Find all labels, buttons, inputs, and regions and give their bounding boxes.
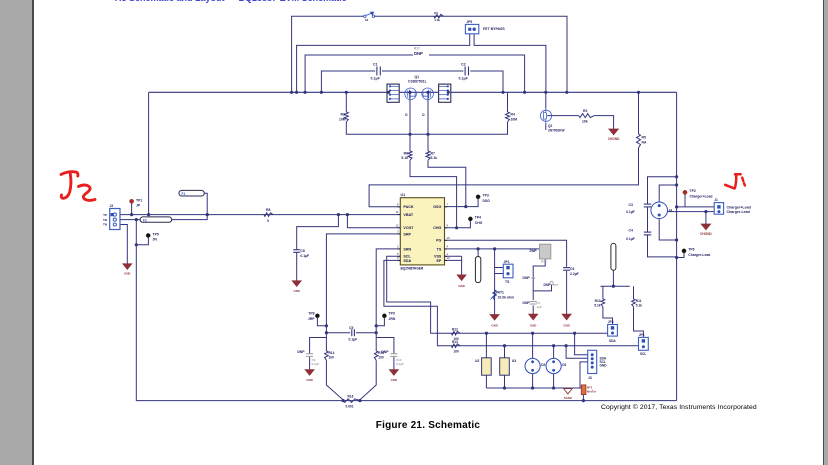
capacitor C2 xyxy=(464,67,466,76)
svg-text:VBAT: VBAT xyxy=(403,213,414,217)
wire C8 branch xyxy=(297,215,339,281)
svg-text:C4: C4 xyxy=(629,228,633,232)
svg-text:DNP: DNP xyxy=(414,51,423,56)
svg-text:Q2: Q2 xyxy=(548,124,552,128)
wire top loop 4 (C1/C2 net) xyxy=(321,71,503,92)
wire SRN sense xyxy=(376,249,400,351)
shunt resistor R16 xyxy=(343,399,360,403)
svg-text:0.1µF: 0.1µF xyxy=(371,77,381,81)
svg-text:DNP: DNP xyxy=(530,249,538,253)
wire U3 drop xyxy=(504,346,506,388)
svg-text:5.1k: 5.1k xyxy=(431,156,438,160)
red handwriting J1 annotation xyxy=(725,174,745,188)
IC U1 charger xyxy=(400,198,444,265)
ground GND at RT1 xyxy=(490,315,499,321)
ground SGND xyxy=(564,389,573,394)
wire right main vertical battery+ xyxy=(676,92,678,400)
svg-text:R18: R18 xyxy=(541,260,547,264)
junction dots right battery xyxy=(675,175,678,178)
resistor R13 xyxy=(451,344,460,348)
wire DNP C10 branch xyxy=(376,338,394,370)
wire DNP TP7 branch xyxy=(533,285,551,291)
wire RT1 chain vertical xyxy=(494,249,496,315)
wire TP9 stub xyxy=(376,318,384,326)
connector JP3 xyxy=(608,325,618,337)
LED D3 xyxy=(546,358,561,373)
svg-text:GND: GND xyxy=(124,272,130,276)
svg-text:11: 11 xyxy=(396,210,399,214)
svg-text:J4: J4 xyxy=(669,209,673,213)
svg-text:10M: 10M xyxy=(339,117,346,121)
DNP capacitor C10 xyxy=(390,354,397,357)
wire top loop 2 (JP5 net) xyxy=(297,34,546,93)
fuse F3 vertical pill xyxy=(611,243,616,270)
switch S1 xyxy=(364,15,366,17)
DNP label on net 3 xyxy=(413,50,429,56)
svg-text:GND: GND xyxy=(563,323,569,327)
wire SDA route xyxy=(387,256,609,333)
svg-text:3: 3 xyxy=(397,230,399,234)
svg-text:TP: TP xyxy=(103,213,107,217)
svg-text:R9: R9 xyxy=(532,276,536,280)
dual FET Q1 header left xyxy=(387,84,399,102)
ground GND at C6 xyxy=(562,314,571,320)
svg-text:GND: GND xyxy=(293,289,299,293)
DNP capacitor C9 xyxy=(306,354,313,357)
svg-text:10.0k ohm: 10.0k ohm xyxy=(498,296,515,300)
wire TP6 stub xyxy=(677,253,684,258)
svg-text:D3: D3 xyxy=(562,363,566,367)
svg-text:C8: C8 xyxy=(300,249,304,253)
svg-text:C5: C5 xyxy=(349,326,353,330)
svg-text:D2: D2 xyxy=(541,363,545,367)
junction dots gate line xyxy=(408,133,411,136)
svg-text:TP1: TP1 xyxy=(136,199,142,203)
svg-text:10M: 10M xyxy=(511,117,518,121)
resistor R1 xyxy=(434,14,444,18)
testpoint TP3 xyxy=(476,195,480,199)
svg-text:Charger+Lead: Charger+Lead xyxy=(690,194,713,198)
wire jack top stub xyxy=(659,185,676,202)
svg-text:D: D xyxy=(405,113,408,117)
svg-text:100: 100 xyxy=(454,350,460,354)
svg-text:R13: R13 xyxy=(452,340,458,344)
capacitor C6 xyxy=(563,267,570,269)
wire main top bus VIN xyxy=(149,91,677,93)
red handwriting J2 annotation xyxy=(61,172,95,201)
svg-text:GND: GND xyxy=(306,378,312,382)
capacitor C4 xyxy=(644,231,652,233)
svg-text:R7: R7 xyxy=(431,151,435,155)
connector J1 xyxy=(714,203,723,215)
svg-text:PACK: PACK xyxy=(403,205,414,209)
wire top loop 3 (DNP net) xyxy=(305,55,524,92)
capacitor C1 xyxy=(376,67,378,76)
junction dots sense xyxy=(325,324,328,327)
svg-text:DNP: DNP xyxy=(297,350,305,354)
svg-text:F2: F2 xyxy=(143,218,147,222)
svg-text:100: 100 xyxy=(378,356,384,360)
svg-text:C7: C7 xyxy=(537,301,541,305)
svg-text:8: 8 xyxy=(397,202,399,206)
dual FET Q1 header right xyxy=(439,84,451,102)
svg-text:0.1µF: 0.1µF xyxy=(626,210,635,214)
svg-text:CHG: CHG xyxy=(433,226,441,230)
fuse F4 vertical pill xyxy=(475,257,480,283)
wire SRP sense xyxy=(326,234,400,351)
svg-text:C1: C1 xyxy=(373,62,378,66)
svg-text:SCL: SCL xyxy=(640,352,646,356)
svg-text:JP4: JP4 xyxy=(639,333,645,337)
wire SCL route xyxy=(384,260,639,345)
wire TP2 stub xyxy=(684,195,686,207)
svg-text:RT1: RT1 xyxy=(498,291,505,295)
resistor R4 xyxy=(506,112,510,122)
wire CHGND drop at J1 xyxy=(705,212,707,224)
svg-text:PG: PG xyxy=(436,239,441,243)
resistor R12 xyxy=(451,331,460,335)
wire FET gate drops to R6 R7 xyxy=(410,92,457,228)
testpoint TP6 xyxy=(682,249,686,253)
svg-text:R17: R17 xyxy=(414,47,420,51)
svg-text:VCNT: VCNT xyxy=(403,226,414,230)
wire D2 drop xyxy=(532,333,534,388)
wire left long vertical and bottom rail xyxy=(136,220,676,401)
wire fuse F1 drop xyxy=(204,193,207,214)
ground GND at C8 xyxy=(292,281,301,287)
svg-text:1µF: 1µF xyxy=(537,305,542,309)
svg-text:5.1k: 5.1k xyxy=(401,156,408,160)
svg-text:TP2: TP2 xyxy=(690,189,696,193)
wire C5 bridge xyxy=(326,332,376,334)
svg-text:DNP: DNP xyxy=(523,301,531,305)
transistor Q1a mosfet xyxy=(405,88,417,100)
connector J3 xyxy=(588,350,597,373)
wire TP1 stub xyxy=(131,203,133,214)
resistor R7 xyxy=(426,151,430,160)
svg-text:GND: GND xyxy=(530,323,536,327)
svg-text:TS: TS xyxy=(437,247,442,251)
svg-text:R1: R1 xyxy=(434,11,438,15)
resistor R14 xyxy=(325,351,329,360)
DNP component grey box xyxy=(540,244,551,259)
svg-text:0.1µF: 0.1µF xyxy=(459,77,469,81)
svg-text:JP1: JP1 xyxy=(504,260,510,264)
svg-text:TP9: TP9 xyxy=(389,312,395,316)
ground CHGND at Q2 xyxy=(609,129,619,135)
svg-text:C6: C6 xyxy=(570,267,574,271)
wire J1 pin1 line xyxy=(677,206,715,208)
svg-text:R3: R3 xyxy=(341,113,345,117)
fuse F1 xyxy=(179,190,204,196)
testpoint TP5 xyxy=(146,233,150,237)
svg-text:R6: R6 xyxy=(404,151,408,155)
wire DSG net xyxy=(445,199,479,207)
wire pill F3 bottom to R10 R11 loop xyxy=(600,270,629,286)
svg-text:100: 100 xyxy=(329,356,335,360)
resistor R2 xyxy=(579,114,595,118)
wire main input line J2 to VBAT xyxy=(120,214,400,216)
svg-text:JRN: JRN xyxy=(389,317,396,321)
svg-text:TP4: TP4 xyxy=(475,216,481,220)
svg-text:U3: U3 xyxy=(512,359,516,363)
capacitor C8 xyxy=(293,249,300,251)
wire VCNT jog xyxy=(347,215,400,228)
svg-text:Charger-Lead: Charger-Lead xyxy=(727,210,750,214)
svg-text:2.2µF: 2.2µF xyxy=(570,272,579,276)
svg-text:EP: EP xyxy=(436,259,441,263)
transistor Q2 xyxy=(540,110,551,121)
svg-text:CHG: CHG xyxy=(475,221,483,225)
junction dots bus xyxy=(290,91,293,94)
svg-text:13: 13 xyxy=(446,256,450,260)
wire R10 leg to JP3 xyxy=(603,286,613,324)
svg-text:DNP: DNP xyxy=(381,350,389,354)
svg-text:TP5: TP5 xyxy=(153,233,159,237)
svg-text:GND: GND xyxy=(458,284,464,288)
testpoint TP2 xyxy=(683,190,687,194)
wire NT1 stubs xyxy=(582,395,584,401)
ground GND at C7 xyxy=(529,314,538,320)
svg-text:NA: NA xyxy=(642,140,647,144)
LED driver U3 xyxy=(500,358,510,375)
svg-text:Charger+Lead: Charger+Lead xyxy=(727,205,751,209)
wire shunt approach V left xyxy=(326,360,343,400)
svg-text:4: 4 xyxy=(446,245,448,249)
wire shunt approach V right xyxy=(360,360,376,400)
resistor R10 xyxy=(601,299,605,307)
svg-text:0.1µF: 0.1µF xyxy=(396,362,404,366)
LED D2 xyxy=(525,358,540,373)
transistor Q1b mosfet xyxy=(422,88,434,100)
wire J2 pin3 to gnd xyxy=(120,225,127,264)
wire gate line between R3 and R4 xyxy=(346,122,507,134)
svg-text:GND: GND xyxy=(600,364,608,368)
svg-text:1.0k: 1.0k xyxy=(434,18,440,22)
svg-text:J3: J3 xyxy=(588,376,592,380)
svg-text:TB: TB xyxy=(103,218,108,222)
svg-text:CSD87501L: CSD87501L xyxy=(408,79,427,83)
capacitor C5 xyxy=(351,329,353,336)
svg-text:SDA: SDA xyxy=(609,339,616,343)
svg-text:DNP: DNP xyxy=(523,276,531,280)
svg-text:7: 7 xyxy=(446,202,448,206)
svg-text:0.1µF: 0.1µF xyxy=(300,254,309,258)
svg-text:NetTie: NetTie xyxy=(587,390,596,394)
svg-text:R8: R8 xyxy=(266,208,270,212)
connector JP1 xyxy=(503,264,513,278)
DNP capacitor C7 xyxy=(530,302,537,305)
svg-text:9: 9 xyxy=(446,223,448,227)
svg-text:JP3: JP3 xyxy=(608,320,614,324)
svg-text:J2: J2 xyxy=(110,204,114,208)
net tie NT1 xyxy=(581,385,586,395)
junction dots sda scl xyxy=(485,332,488,335)
wire DNP grey box chain xyxy=(533,259,545,314)
testpoint TP8 xyxy=(315,314,319,318)
svg-text:JRP: JRP xyxy=(308,317,315,321)
svg-text:10: 10 xyxy=(446,236,450,240)
svg-text:R12: R12 xyxy=(452,327,458,331)
svg-text:C2: C2 xyxy=(461,62,466,66)
wire VSS EP to gnd xyxy=(445,256,462,275)
ground GND at J2 xyxy=(123,264,132,270)
wire PACK net with R5 riser xyxy=(369,92,638,206)
svg-text:12: 12 xyxy=(395,223,399,227)
svg-text:CHGND: CHGND xyxy=(700,232,712,236)
connector JP4 xyxy=(639,337,649,350)
thermistor RT1 xyxy=(493,290,497,300)
wire top loop 1 with S1/R1 xyxy=(292,16,567,92)
svg-text:0.1µF: 0.1µF xyxy=(312,362,320,366)
wire TS net xyxy=(445,248,540,250)
svg-text:SRN: SRN xyxy=(403,247,411,251)
svg-text:C3: C3 xyxy=(629,203,633,207)
junction dot TP5 node xyxy=(135,243,138,246)
svg-text:SGND: SGND xyxy=(564,396,572,400)
svg-text:JN: JN xyxy=(153,238,158,242)
svg-text:FET BYPASS: FET BYPASS xyxy=(483,27,505,31)
junction dots rail xyxy=(342,399,345,402)
svg-text:JP: JP xyxy=(136,204,141,208)
resistor R11 xyxy=(632,299,636,307)
svg-text:0.1µF: 0.1µF xyxy=(626,237,635,241)
svg-text:R5: R5 xyxy=(642,136,646,140)
svg-text:0.001: 0.001 xyxy=(346,405,354,409)
svg-text:GND: GND xyxy=(391,378,397,382)
LED driver U2 xyxy=(482,358,492,375)
connector JP5 xyxy=(465,24,478,33)
wire left vertical from bus to input line xyxy=(148,92,150,214)
ground GND at U1 VSS xyxy=(457,275,466,281)
resistor R3 xyxy=(344,112,348,122)
wire pill F4 top stub xyxy=(477,249,479,257)
resistor R5 xyxy=(637,134,641,148)
wire fuse F2 line xyxy=(120,215,207,220)
svg-text:R11: R11 xyxy=(636,299,642,303)
junction dots input line xyxy=(130,213,133,216)
svg-text:U1: U1 xyxy=(401,193,406,197)
fuse F2 xyxy=(140,217,172,222)
svg-text:CHGND: CHGND xyxy=(608,137,620,141)
wire TP8 stub xyxy=(317,318,326,326)
svg-text:J1: J1 xyxy=(714,198,718,202)
wire DNP C9 branch xyxy=(310,338,327,370)
svg-text:R14: R14 xyxy=(329,351,335,355)
connector J2 xyxy=(110,209,120,230)
svg-text:DSG: DSG xyxy=(433,205,441,209)
battery jack J4 xyxy=(651,202,668,219)
svg-text:TN: TN xyxy=(103,223,107,227)
wire JP1 stubs xyxy=(495,268,504,274)
svg-text:TS: TS xyxy=(505,280,510,284)
svg-text:SDA: SDA xyxy=(403,259,411,263)
resistor R8 xyxy=(264,213,273,217)
svg-text:U2: U2 xyxy=(475,359,479,363)
wire battery cap chain C3 C4 xyxy=(648,177,677,257)
wire SGND collect line xyxy=(486,387,581,389)
svg-text:S1: S1 xyxy=(365,18,369,22)
svg-text:SRP: SRP xyxy=(403,232,411,236)
svg-text:DSG: DSG xyxy=(483,199,491,203)
testpoint TP4 xyxy=(468,217,472,221)
ground GND at C10 xyxy=(389,370,398,376)
svg-text:GND: GND xyxy=(491,324,497,328)
wire R11 leg to JP4 xyxy=(634,286,644,337)
wire CHG net xyxy=(445,221,471,228)
svg-text:10k: 10k xyxy=(582,120,588,124)
svg-text:R2: R2 xyxy=(583,109,587,113)
svg-text:5.1k: 5.1k xyxy=(636,304,642,308)
wire TP5 stub xyxy=(136,238,148,245)
ground CHGND at J1 xyxy=(701,224,711,230)
svg-text:0: 0 xyxy=(267,219,269,223)
wire PG to C6 xyxy=(445,240,567,314)
svg-text:TP3: TP3 xyxy=(483,194,489,198)
svg-text:Charger-Lead: Charger-Lead xyxy=(688,253,710,257)
svg-text:BQ25887RGER: BQ25887RGER xyxy=(401,266,425,270)
junction dots ts dsg chg xyxy=(477,247,480,250)
wire D3 drop xyxy=(553,346,555,388)
wire Q2 drain and gate to CHGND xyxy=(546,92,614,130)
capacitor C3 xyxy=(644,203,652,205)
svg-text:R4: R4 xyxy=(511,113,515,117)
resistor R6 xyxy=(408,151,412,160)
svg-text:TP8: TP8 xyxy=(308,312,314,316)
svg-text:0.1µF: 0.1µF xyxy=(349,338,358,342)
svg-text:2N7002KW: 2N7002KW xyxy=(548,129,564,133)
ground GND at C9 xyxy=(305,370,314,376)
svg-text:2: 2 xyxy=(397,245,399,249)
svg-text:5.1k: 5.1k xyxy=(594,304,600,308)
testpoint TP9 xyxy=(382,314,386,318)
svg-text:R10: R10 xyxy=(595,299,601,303)
resistor R15 xyxy=(374,351,378,360)
wire U2 drop xyxy=(485,333,487,388)
svg-text:F1: F1 xyxy=(182,192,186,196)
svg-text:D: D xyxy=(422,113,425,117)
wire jack bottom stub xyxy=(659,219,676,240)
svg-text:JP5: JP5 xyxy=(467,20,473,24)
svg-text:TP6: TP6 xyxy=(688,248,694,252)
wire J3 pin stubs xyxy=(566,333,588,388)
svg-text:R16: R16 xyxy=(348,394,354,398)
wire J1 pin2 line xyxy=(668,211,715,213)
testpoint TP1 xyxy=(130,199,134,203)
